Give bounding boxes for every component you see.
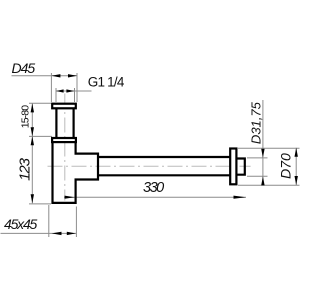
D45 arrow right: [68, 74, 77, 77]
right ext line stub top: [247, 157, 268, 159]
outlet stub: [236, 159, 244, 175]
330 arrow right (tip at stub end): [234, 196, 247, 199]
D70 arrow down: [295, 176, 298, 185]
45x45 arrow right: [67, 232, 76, 235]
D45 ext line left: [50, 73, 52, 102]
G1 1/4 dimension line + leader: [56, 90, 92, 92]
D45 arrow left: [51, 74, 60, 77]
G ext line right: [74, 88, 76, 102]
right ext line flange bottom: [238, 184, 300, 186]
svg-text:330: 330: [143, 180, 164, 196]
45x45 extension lines: [48, 205, 50, 237]
right ext line stub bottom: [247, 175, 268, 177]
extension line left y203: [29, 203, 51, 205]
D70 arrow up: [295, 148, 298, 157]
svg-text:D70: D70: [278, 153, 294, 179]
D45 ext line right: [76, 73, 78, 102]
D31,75 arrow up (tip stub bottom): [261, 176, 264, 185]
svg-text:15-80: 15-80: [19, 105, 31, 128]
45x45 dimension line: [1, 232, 77, 234]
G arrow right: [66, 89, 74, 92]
svg-text:D31,75: D31,75: [249, 101, 264, 144]
D45 leader and dimension line: [12, 75, 78, 77]
horizontal pipe top wall: [98, 156, 230, 158]
330 dimension line: [64, 196, 246, 198]
extension line left y136: [29, 135, 52, 137]
svg-text:45x45: 45x45: [4, 216, 38, 232]
svg-text:123: 123: [17, 157, 34, 180]
D31,75 arrow down (tip stub top): [261, 149, 264, 158]
riser pipe left wall: [55, 108, 57, 138]
arrow up tip y136.3 (123): [31, 136, 34, 145]
330 arrow left (tip at body wall): [65, 196, 75, 199]
svg-text:D45: D45: [12, 60, 36, 76]
riser pipe right wall: [72, 108, 74, 138]
arrow up tip y103.4: [31, 103, 34, 112]
dimension line 15-80 / 123: [31, 103, 33, 203]
body with boss (T silhouette): [53, 142, 99, 203]
horizontal pipe bottom wall: [98, 174, 230, 176]
45x45 arrow left: [52, 232, 62, 235]
svg-text:G1 1/4: G1 1/4: [88, 75, 125, 90]
right ext line flange top: [238, 147, 300, 149]
extension line left y103: [29, 102, 51, 104]
vertical center line (riser axis): [64, 94, 66, 201]
top flange (nut) of riser: [52, 104, 76, 109]
arrow down tip y203.2: [31, 194, 34, 203]
G arrow left: [56, 89, 64, 92]
G ext line left: [55, 88, 57, 102]
arrow down tip y136.3 (15-80): [31, 127, 34, 136]
D70 dimension line: [295, 148, 297, 185]
slip nut band on body: [52, 138, 76, 142]
horizontal center line (pipe axis): [48, 165, 251, 167]
wall plate flange: [230, 149, 236, 185]
D31,75 dimension line: [262, 100, 264, 185]
